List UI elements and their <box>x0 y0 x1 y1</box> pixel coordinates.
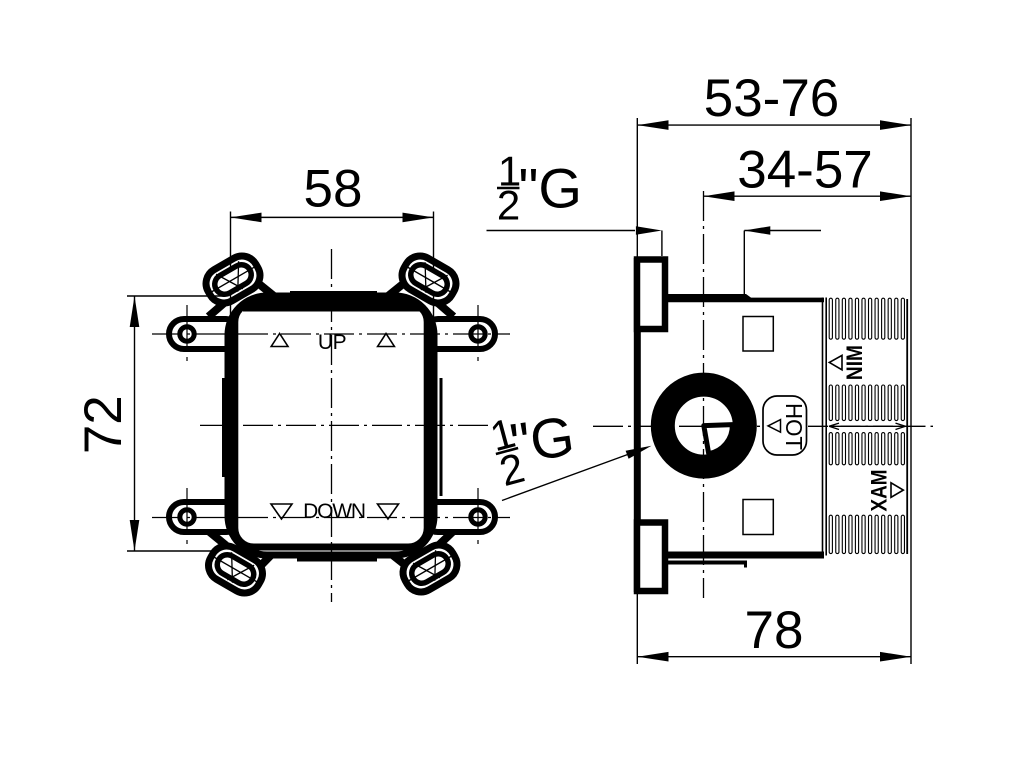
plaster guard lower edge <box>667 561 747 565</box>
mounting ear upper-right <box>396 250 462 309</box>
HOT triangle <box>768 420 781 433</box>
wall depth arrow pair <box>744 230 821 232</box>
body bottom edge <box>664 552 824 559</box>
screw hole right-top <box>471 327 485 341</box>
top flange <box>637 260 665 330</box>
cartridge port circle <box>663 385 745 467</box>
cover plate top tab <box>290 291 377 295</box>
svg-text:34-57: 34-57 <box>737 140 873 199</box>
threaded sleeve ridges <box>829 298 832 339</box>
UP triangle left <box>271 334 288 347</box>
svg-text:XAM: XAM <box>867 470 892 512</box>
bottom flange <box>637 523 665 592</box>
valve body outer outline (front view) <box>228 296 434 555</box>
svg-text:72: 72 <box>74 395 133 454</box>
adjustment range double arrow <box>829 425 906 427</box>
dimension 53-76 <box>638 124 912 126</box>
screw hole right-bottom <box>471 510 485 524</box>
hole centerline bottom horizontal <box>152 517 510 519</box>
DOWN triangle left <box>271 504 292 519</box>
left extension line <box>636 118 638 258</box>
leader line to wall face <box>487 230 636 232</box>
screw hole left-top <box>180 327 194 341</box>
detail square top <box>743 317 773 352</box>
78 left extension <box>636 592 638 664</box>
svg-text:UP: UP <box>318 331 346 354</box>
hole centerline vertical left-top <box>186 305 188 352</box>
mounting tab right-top <box>423 319 495 349</box>
mounting ear lower-right <box>397 539 463 598</box>
side view horizontal centerline right part <box>808 425 938 427</box>
front view horizontal centerline <box>200 424 493 426</box>
svg-text:HOT: HOT <box>781 403 807 450</box>
label 1/2"G bottom (rotated) <box>485 409 529 495</box>
mounting tab left-bottom <box>169 502 241 532</box>
hole centerline vertical left-bottom <box>186 488 188 535</box>
svg-text:DOWN: DOWN <box>303 500 365 523</box>
svg-text:NIM: NIM <box>842 345 867 380</box>
dimension 78 <box>638 656 912 658</box>
body top edge <box>664 294 824 302</box>
svg-text:78: 78 <box>745 601 804 660</box>
side view horizontal centerline left part <box>593 425 760 427</box>
dimension 58 extension line right <box>433 212 435 338</box>
valve body inner cover outline (front view) <box>235 303 427 547</box>
cover plate top edge bar <box>243 306 420 312</box>
screw hole left-bottom <box>180 510 194 524</box>
cartridge sector wedge <box>704 425 733 454</box>
mounting ear upper-left <box>200 250 266 309</box>
HOT label box <box>763 396 807 455</box>
front view vertical centerline <box>331 249 333 602</box>
detail square bottom <box>743 500 773 535</box>
svg-text:2: 2 <box>497 182 520 229</box>
hole centerline vertical right-top <box>477 305 479 352</box>
dimension 58 extension line left <box>230 212 232 338</box>
dimension 34-57 <box>704 195 912 197</box>
fraction bar <box>497 187 520 190</box>
leader line to inlet <box>502 454 628 500</box>
svg-text:"G: "G <box>519 157 582 220</box>
mounting tab right-bottom <box>423 502 495 532</box>
DOWN triangle right <box>378 504 399 519</box>
side ridge right <box>440 378 443 496</box>
dimension 72 extension line top <box>127 295 225 297</box>
thread collar lines <box>822 298 824 556</box>
side view vertical centerline <box>703 191 705 598</box>
MAX triangle <box>891 483 903 498</box>
side ridge left <box>222 378 225 477</box>
svg-text:"G: "G <box>506 404 578 475</box>
svg-text:53-76: 53-76 <box>704 69 840 128</box>
hole centerline top horizontal <box>152 333 510 335</box>
extension from wall face arrow <box>661 231 663 257</box>
side view wall line <box>634 258 641 592</box>
UP triangle right <box>378 334 395 347</box>
cover plate bottom tab <box>297 558 377 562</box>
mounting ear lower-left <box>203 540 269 599</box>
dimension 72 extension line bottom <box>127 550 216 552</box>
mounting tab left-top <box>169 319 241 349</box>
svg-text:58: 58 <box>304 160 363 219</box>
MIN triangle <box>829 355 842 369</box>
hole centerline vertical right-bottom <box>477 488 479 535</box>
dimension 72 line <box>134 296 136 551</box>
thread right boundary <box>906 299 908 554</box>
dimension 58 line <box>231 216 434 218</box>
right extension line <box>910 118 912 664</box>
